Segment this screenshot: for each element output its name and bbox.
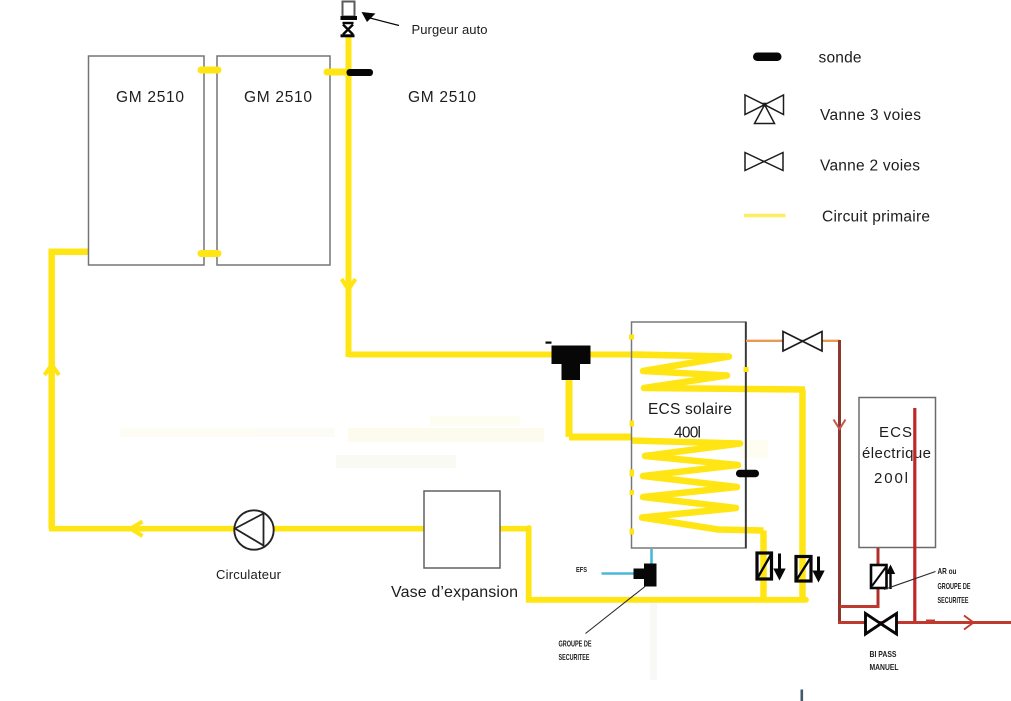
bipass manual valve (black bowtie) (866, 614, 897, 635)
svg-text:GROUPE DE: GROUPE DE (938, 581, 971, 591)
solar tank lower coil (632, 441, 764, 531)
svg-text:Vase d’expansion: Vase d’expansion (391, 584, 518, 601)
wire: red jog connector (840, 605, 880, 608)
flow arrow down on red drop (834, 420, 846, 430)
flow arrow up on left riser (45, 365, 60, 376)
svg-text:BI PASS: BI PASS (870, 649, 897, 659)
svg-text:Purgeur auto: Purgeur auto (412, 22, 488, 37)
callout line to AR label (884, 572, 936, 590)
purgeur auto vent valve (hourglass) (341, 23, 355, 36)
collector panel GM 2510 #1 (89, 56, 205, 265)
check valve 1 (lower coil outlet) (757, 553, 772, 579)
wire: top-left elbow to panel 1 (49, 248, 90, 255)
svg-text:ECS solaire: ECS solaire (648, 401, 732, 418)
legend 2-way valve symbol (745, 153, 783, 171)
legend sonde symbol (753, 53, 782, 62)
callout arrow to purgeur (362, 12, 376, 22)
wire: bipass red header (838, 621, 1011, 624)
purgeur auto flange bar (341, 16, 358, 20)
wire: red pipe tank bottom to AR valve (877, 548, 880, 607)
legend circuit primaire line (744, 214, 786, 217)
hot water outlet (orange) (746, 340, 840, 342)
electric tank ECS electrique 200l (859, 398, 936, 548)
wire: dark red drop from hot outlet (838, 340, 841, 624)
check valve 2 (return line) (796, 557, 811, 582)
svg-text:EFS: EFS (576, 565, 587, 574)
flow arrow right on bipass header (964, 616, 974, 630)
svg-text:SECURITEE: SECURITEE (559, 652, 590, 662)
2-way valve on hot outlet (783, 332, 822, 352)
cold water EFS line (cyan) (650, 549, 653, 565)
collector panel GM 2510 #2 (217, 56, 330, 265)
flow arrow down on hot riser (342, 279, 356, 290)
yellow nub on tank left wall (629, 335, 634, 340)
svg-text:électrique: électrique (862, 445, 931, 462)
solar tank upper coil (632, 355, 805, 390)
wire: tee down pipe (566, 364, 573, 437)
svg-text:GM 2510: GM 2510 (244, 89, 312, 106)
svg-text:MANUEL: MANUEL (870, 662, 899, 672)
svg-text:AR ou: AR ou (938, 566, 957, 576)
svg-text:Vanne 3 voies: Vanne 3 voies (820, 107, 921, 124)
sonde on solar tank (736, 470, 759, 477)
svg-text:SECURITEE: SECURITEE (938, 595, 969, 605)
purgeur auto body (343, 2, 355, 17)
wire: panel 2 outlet to riser (327, 69, 350, 76)
svg-text:GROUPE DE: GROUPE DE (559, 639, 592, 649)
wire: supply line to solar tank (349, 352, 633, 358)
groupe de securite symbol (black) (644, 564, 657, 587)
svg-text:GM 2510: GM 2510 (408, 89, 476, 106)
wire: tee to lower coil (569, 434, 632, 441)
wire: inter-panel connector bottom (201, 250, 218, 257)
solar tank ECS solaire 400l (632, 322, 747, 548)
svg-text:GM 2510: GM 2510 (116, 89, 184, 106)
AR / groupe de securite valve (871, 565, 887, 588)
3-way mixing valve (black tee) on supply (552, 346, 591, 365)
wire: left riser pipe (48, 252, 55, 529)
wire: bottom return header (529, 528, 806, 600)
down arrow 1 (778, 554, 781, 571)
svg-text:Vanne 2 voies: Vanne 2 voies (820, 158, 920, 175)
wire: upper coil return drop (799, 390, 806, 602)
svg-text:Circuit primaire: Circuit primaire (822, 209, 930, 226)
blue tick bottom (801, 690, 804, 701)
callout line to groupe de securite label (586, 587, 646, 634)
wire: red riser inside electric tank (913, 408, 916, 622)
circulator pump (234, 510, 273, 549)
svg-text:sonde: sonde (819, 50, 862, 67)
svg-text:400l: 400l (674, 425, 701, 442)
flow arrow left on bottom return (131, 522, 143, 537)
legend 3-way valve symbol (745, 95, 784, 124)
wire: lower coil outlet drop (760, 531, 767, 601)
faint ghost smudges (120, 416, 768, 680)
down arrow 2 (817, 557, 820, 573)
wire: vessel outlet stub (500, 526, 532, 532)
expansion vessel (424, 491, 500, 568)
wire: main hot riser (vertical) (346, 37, 352, 357)
svg-text:Circulateur: Circulateur (216, 567, 282, 582)
svg-text:ECS: ECS (879, 424, 912, 441)
wire: inter-panel connector top (201, 67, 218, 74)
wire: bottom return line to expansion vessel (52, 526, 424, 529)
sonde on collector outlet (347, 69, 374, 76)
